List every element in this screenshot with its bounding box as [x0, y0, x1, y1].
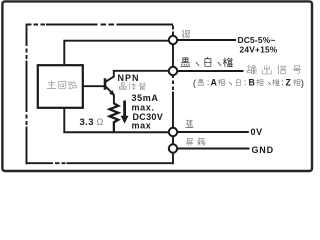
resistor R1 3.3ohm zigzag [110, 104, 119, 133]
transistor Q1 base wire [83, 85, 104, 87]
label 输出信号 [247, 65, 256, 74]
svg-text:Ω: Ω [97, 117, 104, 127]
svg-text:GND: GND [252, 145, 274, 155]
svg-text:max: max [132, 121, 152, 131]
node4 (shield GND) [169, 144, 177, 152]
wire: bottom rail (0V) to node3 [63, 131, 169, 133]
node2 (signal) [169, 67, 177, 75]
label 蓝 (blue) [186, 120, 194, 128]
svg-text::: : [207, 78, 209, 87]
transistor Q1 collector + wire to node2 [106, 71, 170, 82]
border frame [2, 1, 312, 171]
wire: box top to node1 (brown) [64, 41, 169, 65]
wire: emitter to resistor [113, 95, 115, 105]
svg-text::: : [282, 78, 284, 87]
svg-text:B: B [249, 78, 255, 88]
wire node1 -> DC supply terminal [177, 39, 236, 41]
svg-text:(: ( [193, 78, 196, 88]
wire node3 -> 0V terminal [177, 131, 248, 133]
svg-text:A: A [211, 78, 218, 88]
label 黑、白、橙 [181, 58, 190, 67]
svg-text::: : [244, 78, 246, 87]
transistor Q1 emitter with arrow [106, 86, 114, 95]
wire: top rail (brown supply, with cable-break dashes) [27, 24, 174, 26]
svg-text:DC5-5%~: DC5-5%~ [238, 35, 276, 45]
svg-text:24V+15%: 24V+15% [240, 44, 278, 54]
label 褐 (brown) [182, 30, 189, 38]
node3 (0V) [169, 128, 177, 136]
svg-text:0V: 0V [251, 127, 263, 137]
wire: left shield loop vertical [26, 24, 28, 165]
wire: bottom shield line [26, 162, 174, 164]
wire: dashed drop from top rail into node1 [172, 26, 174, 36]
svg-text:3.3: 3.3 [80, 117, 94, 128]
wire node4 -> GND terminal [177, 148, 249, 150]
node1 (brown supply) [169, 36, 177, 44]
wire: box bottom to bottom rail [63, 108, 65, 132]
bus segments on x=173 [172, 44, 174, 66]
label 屏蔽 (shield) [186, 139, 193, 146]
main circuit box 主回路 [38, 65, 83, 108]
transistor Q1 base bar [104, 78, 107, 89]
svg-text:NPN: NPN [118, 73, 140, 83]
svg-text:Z: Z [286, 78, 292, 88]
svg-text:): ) [301, 78, 304, 88]
current direction arrow [123, 101, 126, 117]
wire node2 -> output terminal [177, 70, 243, 72]
